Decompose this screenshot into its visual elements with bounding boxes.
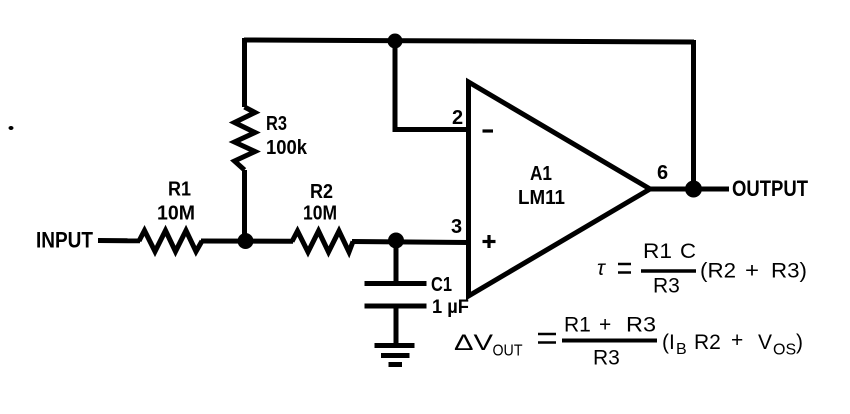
wire R2 to op-amp pin 3 xyxy=(352,242,468,243)
svg-text:(I: (I xyxy=(662,331,675,354)
svg-text:R1: R1 xyxy=(564,314,591,337)
op-amp plus sign xyxy=(483,235,496,248)
equation tau xyxy=(597,240,807,298)
svg-text:τ: τ xyxy=(597,257,606,280)
svg-text:A1: A1 xyxy=(530,163,552,185)
wire R3 top vertical xyxy=(242,38,247,107)
svg-text:6: 6 xyxy=(657,162,668,184)
svg-text:OUT: OUT xyxy=(493,343,523,360)
svg-text:R1: R1 xyxy=(643,240,672,263)
speck xyxy=(9,126,14,130)
node top junction xyxy=(388,34,403,49)
svg-text:V: V xyxy=(758,331,772,354)
capacitor C1 xyxy=(365,284,427,307)
wire C1 top stub xyxy=(394,241,399,283)
op-amp minus sign xyxy=(483,129,494,132)
svg-text:3: 3 xyxy=(451,216,462,238)
svg-text:R3: R3 xyxy=(593,347,620,370)
svg-text:R2: R2 xyxy=(310,181,333,203)
op-amp A1 xyxy=(469,82,651,296)
wire R1 to R2 xyxy=(201,239,293,244)
equation delta Vout xyxy=(454,314,803,370)
wire input lead xyxy=(98,238,140,243)
wire feedback right vertical xyxy=(691,40,696,189)
svg-text:ΔV: ΔV xyxy=(454,330,493,355)
svg-text:100k: 100k xyxy=(266,137,308,159)
svg-text:OS: OS xyxy=(773,342,796,359)
svg-text:+: + xyxy=(745,260,759,283)
wire C1 bottom stub xyxy=(394,306,399,345)
node output junction xyxy=(685,181,702,198)
svg-text:INPUT: INPUT xyxy=(36,228,93,253)
svg-text:10M: 10M xyxy=(303,203,337,225)
svg-text:+: + xyxy=(731,329,743,352)
svg-text:R2: R2 xyxy=(694,331,721,354)
svg-text:R3: R3 xyxy=(266,113,287,135)
svg-text:10M: 10M xyxy=(157,203,195,225)
svg-text:R3: R3 xyxy=(626,314,656,337)
resistor R2 xyxy=(292,231,353,252)
svg-text:LM11: LM11 xyxy=(518,187,565,209)
svg-text:B: B xyxy=(676,341,687,358)
svg-text:+: + xyxy=(599,314,611,337)
wire R3 bottom vertical xyxy=(242,170,247,241)
svg-text:): ) xyxy=(796,331,803,354)
svg-text:C1: C1 xyxy=(431,274,452,296)
svg-text:R3: R3 xyxy=(653,275,680,298)
svg-text:C: C xyxy=(680,240,696,263)
node noninverting input junction xyxy=(388,233,404,249)
wire top feedback rail xyxy=(244,40,694,42)
svg-text:1 µF: 1 µF xyxy=(432,297,469,318)
svg-text:R1: R1 xyxy=(168,179,191,201)
node R1 R3 junction xyxy=(238,233,254,249)
resistor R1 xyxy=(139,231,202,252)
svg-text:OUTPUT: OUTPUT xyxy=(732,176,808,201)
resistor R3 xyxy=(235,107,256,170)
svg-text:2: 2 xyxy=(452,107,463,129)
ground xyxy=(375,346,415,365)
svg-text:(R2: (R2 xyxy=(700,260,736,283)
wire output xyxy=(650,187,729,192)
svg-text:R3): R3) xyxy=(771,260,807,283)
wire inverting input stub xyxy=(395,41,468,130)
